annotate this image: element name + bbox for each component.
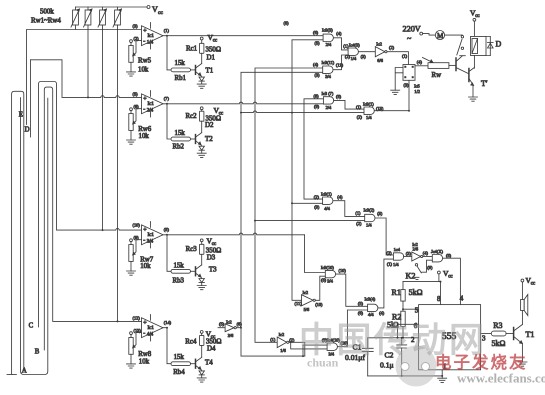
- wire op3 output corner down to G6: [305, 235, 326, 273]
- inverter IV6 IC2 1/6: [270, 332, 305, 356]
- svg-text:Ic5: Ic5: [414, 84, 420, 89]
- svg-text:T3: T3: [209, 267, 217, 274]
- svg-text:500k: 500k: [40, 9, 54, 16]
- watermark stamp circle: [396, 346, 437, 387]
- svg-text:Ic1: Ic1: [148, 34, 155, 39]
- ground Rw8: [127, 364, 136, 368]
- svg-text:(2): (2): [345, 54, 351, 59]
- svg-text:chuan: chuan: [307, 356, 339, 370]
- svg-text:www.elecfans.com: www.elecfans.com: [457, 371, 545, 386]
- svg-text:15k: 15k: [175, 60, 186, 67]
- svg-text:Rw1~Rw4: Rw1~Rw4: [31, 18, 61, 25]
- svg-text:1/4: 1/4: [366, 115, 372, 120]
- svg-text:Ic3(4): Ic3(4): [365, 297, 376, 302]
- wire output stage2: [163, 104, 171, 139]
- node IV4 output junction: [240, 327, 242, 329]
- ground stage2: [197, 153, 206, 157]
- svg-text:-: -: [143, 331, 145, 337]
- Vcc terminal stage3: [200, 239, 203, 242]
- svg-text:2/4: 2/4: [326, 42, 332, 47]
- op-amp IC1 2/4 stage2: [127, 91, 224, 158]
- svg-text:(8): (8): [446, 253, 452, 258]
- svg-text:5kΩ: 5kΩ: [409, 288, 423, 297]
- svg-text:Ic1: Ic1: [148, 233, 155, 238]
- svg-text:K2: K2: [406, 272, 416, 281]
- resistor Rb3 15k: [171, 269, 191, 273]
- svg-text:15k: 15k: [174, 354, 185, 361]
- svg-text:Rb1: Rb1: [175, 75, 187, 82]
- svg-text:1/2: 1/2: [414, 89, 420, 94]
- Vcc terminal relay: [470, 9, 480, 37]
- wire G12 input1 from bottom link: [303, 345, 327, 356]
- svg-text:A: A: [22, 368, 27, 375]
- wire G8 out down to G11: [375, 218, 393, 255]
- svg-text:(10): (10): [133, 223, 141, 228]
- svg-text:Rb3: Rb3: [173, 278, 185, 285]
- svg-text:(2): (2): [356, 221, 362, 226]
- resistor R3 5k: [481, 321, 514, 348]
- Vcc terminal stage2: [200, 107, 203, 110]
- svg-text:2/6: 2/6: [413, 247, 419, 252]
- potentiometer Rw5 10k: [130, 40, 133, 43]
- AND gate G11 IC4 1/4: [387, 247, 412, 267]
- inverter IV7 IC2 2/6: [412, 242, 433, 261]
- svg-text:(10): (10): [339, 268, 347, 273]
- svg-text:(2): (2): [389, 45, 395, 50]
- svg-text:(6): (6): [313, 30, 319, 35]
- svg-text:T4: T4: [205, 360, 213, 367]
- node bus255 tap G8: [254, 220, 256, 222]
- svg-text:10k: 10k: [139, 358, 150, 365]
- svg-text:T′: T′: [481, 79, 488, 88]
- relay contact switch: [457, 36, 466, 56]
- sensor tube B inner: [44, 87, 141, 350]
- svg-text:T1: T1: [206, 68, 214, 75]
- wire bus v241 from G2 lower input down to IV4 output: [241, 72, 323, 356]
- svg-text:(1): (1): [356, 105, 362, 110]
- diode D3: [200, 277, 203, 278]
- svg-text:(9): (9): [427, 265, 433, 270]
- AND gate G8 IC3 1/4: [355, 208, 393, 255]
- sensor tube C outer: [39, 82, 142, 328]
- svg-text:(3): (3): [315, 73, 321, 78]
- svg-text:(11): (11): [295, 301, 303, 306]
- wire op2 output row to G4: [167, 102, 323, 104]
- svg-text:cc: cc: [158, 10, 163, 16]
- wire G5 lower input from bus241: [241, 111, 364, 113]
- svg-text:1/4: 1/4: [393, 262, 399, 267]
- wire IV5 out up to G6 input: [315, 276, 325, 300]
- svg-text:3/4: 3/4: [147, 240, 154, 245]
- wire G13 out to pin4 line: [443, 258, 461, 304]
- svg-text:(8): (8): [164, 227, 170, 232]
- wire IV1 out to IC5: [387, 52, 408, 65]
- svg-text:350Ω: 350Ω: [206, 47, 221, 54]
- ground IC5: [391, 90, 400, 94]
- svg-text:Rw8: Rw8: [138, 351, 152, 358]
- svg-text:(8): (8): [284, 21, 290, 26]
- inverter IV1 IC2 6/6: [375, 41, 408, 64]
- inverter IV5 IC2 5/6: [295, 276, 326, 312]
- Vcc terminal 555: [403, 269, 453, 305]
- node bus292 tap G7: [291, 202, 293, 204]
- svg-text:D1: D1: [207, 55, 216, 62]
- AND gate G6 IC3 3/4: [321, 265, 368, 306]
- svg-text:(3): (3): [361, 54, 367, 59]
- svg-text:1/4: 1/4: [147, 41, 154, 46]
- transistor T1: [195, 66, 197, 75]
- wire D to opamp2: [31, 60, 142, 98]
- svg-text:Ic3(1): Ic3(1): [321, 192, 332, 197]
- svg-text:(5): (5): [219, 322, 225, 327]
- svg-text:Rc2: Rc2: [186, 113, 198, 120]
- ground stage3: [197, 286, 206, 290]
- svg-text:(5): (5): [358, 301, 364, 306]
- bus drop to opamp3 input: [102, 30, 104, 231]
- svg-text:1/4: 1/4: [351, 56, 357, 61]
- svg-text:Jc4(X): Jc4(X): [431, 249, 443, 254]
- wire pin5: [403, 308, 419, 310]
- svg-text:(7): (7): [164, 96, 170, 101]
- svg-text:cc: cc: [475, 14, 480, 19]
- transistor T' darlington pair: [456, 56, 488, 101]
- svg-text:(1): (1): [343, 43, 349, 48]
- AND gate G7 IC3 4/4: [314, 192, 365, 217]
- diode D2: [200, 145, 203, 146]
- wire 555 pin1 to ground: [441, 370, 443, 378]
- svg-text:350Ω: 350Ω: [206, 339, 221, 346]
- svg-text:5/6: 5/6: [304, 307, 310, 312]
- diode D flyback: [486, 37, 490, 56]
- transistor T1 output: [514, 325, 535, 367]
- ground Rw7: [127, 271, 136, 275]
- svg-text:(3): (3): [404, 83, 410, 88]
- wire G5 out to IC5 reset: [374, 80, 409, 110]
- wire IV7 out to G13: [423, 256, 433, 258]
- svg-text:1/4: 1/4: [366, 223, 372, 228]
- svg-text:(3): (3): [133, 24, 139, 29]
- svg-text:电子发烧友: 电子发烧友: [435, 352, 528, 372]
- svg-text:(9): (9): [314, 104, 320, 109]
- svg-text:D2: D2: [205, 122, 214, 129]
- svg-text:(4): (4): [337, 195, 343, 200]
- svg-text:(4): (4): [313, 62, 319, 67]
- svg-text:(4): (4): [379, 311, 385, 316]
- svg-text:-: -: [143, 39, 145, 45]
- svg-text:R1: R1: [392, 288, 401, 297]
- svg-text:Rw5: Rw5: [138, 57, 152, 64]
- bus drop to opamp4 input: [117, 30, 119, 322]
- svg-text:2/4: 2/4: [147, 109, 154, 114]
- inverter IV4 IC2 3/6: [218, 320, 242, 339]
- svg-text:Ic3 (7): Ic3 (7): [322, 91, 334, 96]
- svg-text:D4: D4: [207, 346, 216, 353]
- potentiometer Rw6 10k: [130, 108, 133, 111]
- wire G11 out to IV7: [404, 256, 412, 258]
- svg-text:10k: 10k: [138, 66, 149, 73]
- svg-text:Rc4: Rc4: [185, 338, 197, 345]
- svg-text:D: D: [25, 127, 30, 134]
- svg-text:(10): (10): [315, 302, 323, 307]
- wire G8 lower input from bus255: [255, 220, 365, 222]
- ground T': [469, 97, 478, 101]
- svg-text:(3): (3): [314, 205, 320, 210]
- svg-text:(4): (4): [417, 60, 423, 65]
- ground 555: [438, 378, 447, 382]
- svg-text:(2): (2): [387, 250, 393, 255]
- wire relay to darlington collector: [473, 56, 475, 69]
- svg-text:Ic1: Ic1: [148, 326, 155, 331]
- resistor Rc1 350ohm: [200, 43, 204, 53]
- resistor Rc3 350ohm: [200, 244, 204, 254]
- svg-text:5: 5: [415, 307, 419, 315]
- wire op3 output row: [167, 233, 305, 235]
- svg-text:(5): (5): [133, 92, 139, 97]
- op-amp IC1 1/4 stage1: [127, 23, 221, 89]
- svg-text:Rb2: Rb2: [173, 143, 185, 150]
- svg-text:(1): (1): [387, 262, 393, 267]
- wire motor to relay switch: [445, 34, 463, 36]
- svg-text:E: E: [19, 112, 23, 119]
- wire IV6 out: [289, 342, 305, 356]
- svg-text:3/4: 3/4: [327, 279, 333, 284]
- svg-text:(6): (6): [237, 322, 243, 327]
- svg-text:5kΩ: 5kΩ: [492, 339, 506, 348]
- wire op4 out to IV4: [218, 327, 241, 329]
- svg-text:cc: cc: [213, 39, 218, 44]
- svg-text:4/4: 4/4: [368, 312, 374, 317]
- wire op1 output to gate G1: [167, 35, 323, 37]
- transistor T3: [195, 267, 197, 276]
- svg-text:(1): (1): [164, 28, 170, 33]
- svg-text:Rc3: Rc3: [186, 246, 198, 253]
- ground Rw6: [127, 140, 136, 144]
- mains label 220V: [403, 25, 436, 44]
- resistor Rb1 15k: [171, 68, 191, 72]
- svg-text:(1): (1): [355, 211, 361, 216]
- svg-text:(2): (2): [357, 115, 363, 120]
- wire output stage3: [163, 235, 171, 271]
- svg-text:T2: T2: [205, 136, 213, 143]
- svg-text:6/6: 6/6: [377, 58, 383, 63]
- svg-text:10k: 10k: [140, 263, 151, 270]
- Vcc terminal stage4: [200, 331, 203, 334]
- ground stage1: [197, 84, 206, 88]
- flip-flop IC5 1/2: [391, 54, 428, 95]
- relay coil K with diode D: [471, 37, 502, 69]
- bus drop to opamp2 input: [87, 30, 89, 98]
- potentiometer Rw3: [98, 7, 107, 30]
- svg-text:15k: 15k: [174, 262, 185, 269]
- wire G13 input2 from K2: [422, 260, 433, 272]
- svg-text:1/6: 1/6: [280, 348, 286, 353]
- svg-text:(11): (11): [336, 63, 344, 68]
- resistor Rc2 350ohm: [200, 111, 204, 121]
- svg-text:D: D: [496, 40, 502, 49]
- ground rail bottom: [368, 370, 447, 383]
- svg-text:(8): (8): [336, 94, 342, 99]
- wire output stage1: [163, 36, 171, 70]
- resistor R1 5k: [392, 282, 423, 312]
- transistor T2: [195, 135, 197, 144]
- electrode D wire short: [26, 30, 28, 125]
- svg-text:cc: cc: [448, 274, 453, 279]
- AND gate G3 IC4 1/4: [343, 42, 375, 61]
- wire bus v292 from G1 input down to inverter IV5: [292, 40, 323, 301]
- svg-text:Ic3(10): Ic3(10): [321, 265, 334, 270]
- ground T1: [518, 362, 527, 366]
- capacitor C1 0.01uF: [345, 338, 373, 376]
- potentiometer Rw1: [71, 7, 80, 30]
- svg-text:R3: R3: [493, 321, 502, 330]
- tank bottom tick: [7, 374, 16, 376]
- svg-text:(4): (4): [423, 251, 429, 256]
- svg-text:(1): (1): [270, 337, 276, 342]
- svg-text:(14): (14): [164, 320, 172, 325]
- Vcc terminal: [147, 6, 150, 9]
- svg-text:4/4: 4/4: [147, 333, 154, 338]
- svg-text:2/4: 2/4: [326, 105, 332, 110]
- ground Rw5: [127, 72, 136, 76]
- AND gate G12 IC4: [291, 310, 368, 356]
- svg-text:Ic3(3): Ic3(3): [322, 27, 333, 32]
- svg-text:Ic1: Ic1: [148, 102, 155, 107]
- transistor T4: [195, 359, 197, 368]
- svg-text:Rw: Rw: [432, 72, 442, 79]
- wire IC5 output to Rw wiper: [415, 65, 428, 67]
- svg-text:(4): (4): [336, 31, 342, 36]
- wire G7 lower input from bus292: [292, 202, 323, 204]
- IC 555 timer: [411, 295, 486, 371]
- wire IC5 left pins to ground: [395, 68, 403, 91]
- potentiometer Rw2: [84, 7, 93, 30]
- svg-text:(3): (3): [406, 251, 412, 256]
- wire bus v304 from G4 input down to G7: [304, 99, 323, 199]
- svg-text:(2): (2): [314, 194, 320, 199]
- svg-text:Rc1: Rc1: [186, 46, 198, 53]
- svg-text:Ic4(3): Ic4(3): [349, 42, 360, 47]
- svg-text:Ic3(11): Ic3(11): [322, 60, 335, 65]
- svg-text:C: C: [29, 323, 34, 330]
- wire pin6: [398, 324, 419, 338]
- AND gate G13 IC4: [422, 249, 461, 305]
- switch K2: [406, 264, 422, 281]
- wire G4 out to G5: [334, 100, 364, 109]
- svg-text:4/4: 4/4: [324, 206, 330, 211]
- Vcc terminal stage1: [200, 37, 203, 40]
- wire Rw to T' base: [449, 64, 456, 66]
- potentiometer Rw7 10k: [130, 239, 133, 242]
- svg-text:Ic2: Ic2: [279, 332, 285, 337]
- wire G7 out to G8: [333, 201, 365, 217]
- svg-text:(8): (8): [321, 277, 327, 282]
- svg-text:3/4: 3/4: [325, 74, 331, 79]
- sensor tube outer wall left: [12, 91, 24, 374]
- op-amp IC1 4/4 stage4: [127, 315, 222, 383]
- svg-text:D3: D3: [207, 254, 216, 261]
- svg-text:3/6: 3/6: [228, 333, 234, 338]
- ground stage4: [197, 378, 206, 382]
- op-amp IC1 3/4 stage3: [127, 222, 222, 290]
- AND gate G4 IC3 2/4: [314, 91, 365, 110]
- svg-text:-: -: [143, 107, 145, 113]
- svg-text:-: -: [143, 238, 145, 244]
- AND gate G2 IC3 3/4: [313, 55, 348, 79]
- speaker: [521, 276, 536, 324]
- svg-text:15k: 15k: [175, 130, 186, 137]
- svg-text:10k: 10k: [139, 133, 150, 140]
- wire G3 out to inverter IV1: [358, 51, 375, 53]
- svg-text:(3): (3): [377, 211, 383, 216]
- node bottom link: [302, 355, 304, 357]
- svg-text:Ic2: Ic2: [226, 320, 232, 325]
- svg-text:0.1μ: 0.1μ: [380, 360, 394, 369]
- svg-text:1c4: 1c4: [394, 247, 401, 252]
- svg-text:Ic2: Ic2: [303, 290, 309, 295]
- svg-text:(13): (13): [376, 106, 384, 111]
- wire G6 out to G10: [336, 274, 368, 306]
- wire bus v255 from G2 input down to inverter IV6: [255, 68, 323, 342]
- svg-text:Ic2: Ic2: [376, 41, 382, 46]
- potentiometer Rw8 10k: [130, 332, 133, 335]
- wire pots common to opamp1: [27, 29, 142, 31]
- capacitor C2 0.1uF: [380, 337, 407, 376]
- tank vessel with bottom: [21, 98, 48, 375]
- wire pin2 / trigger net: [368, 337, 419, 339]
- svg-text:M: M: [437, 32, 444, 40]
- resistor R2 5k: [387, 311, 405, 339]
- diode D1: [200, 76, 203, 77]
- AND gate G1 IC3 2/4: [313, 27, 348, 50]
- electrode D second rod: [30, 60, 32, 137]
- svg-text:350Ω: 350Ω: [206, 247, 221, 254]
- svg-text:Ic3(2): Ic3(2): [364, 208, 375, 213]
- wire output stage4: [163, 328, 171, 364]
- svg-text:cc: cc: [531, 282, 536, 287]
- svg-text:(6): (6): [358, 311, 364, 316]
- svg-text:(8): (8): [314, 94, 320, 99]
- svg-text:220V: 220V: [403, 25, 421, 34]
- wire G10 out up to G11 input: [378, 259, 394, 308]
- resistor Rb2 15k: [171, 137, 191, 141]
- svg-text:B: B: [35, 349, 40, 356]
- resistor Rb4 15k: [171, 362, 191, 366]
- wire G12 out up to G10 input: [337, 310, 367, 347]
- wire G2 out to G3: [333, 55, 348, 70]
- resistor Rc4 350ohm: [200, 335, 204, 345]
- svg-text:Ic3(1): Ic3(1): [363, 102, 374, 107]
- svg-text:4: 4: [460, 295, 464, 303]
- wire G1 out to G3: [333, 38, 348, 50]
- Vcc supply rail: [76, 6, 148, 8]
- AND gate G10 IC3 4/4: [358, 259, 394, 317]
- AND gate G5 IC3 1/4: [356, 80, 410, 120]
- potentiometer Rw: [423, 58, 456, 80]
- svg-text:T1: T1: [526, 330, 535, 339]
- svg-text:(1): (1): [402, 54, 408, 59]
- diode D4: [200, 370, 203, 371]
- svg-text:~: ~: [407, 34, 412, 43]
- svg-text:(5): (5): [315, 41, 321, 46]
- svg-text:(12): (12): [133, 316, 141, 321]
- potentiometer Rw4: [113, 7, 122, 30]
- wire Vcc rail to R1 and pin8: [403, 282, 441, 305]
- wire to motor: [423, 34, 436, 36]
- svg-text:Rb4: Rb4: [173, 369, 185, 376]
- svg-text:Rw6: Rw6: [138, 126, 152, 133]
- wire G12 input2 from IV6: [291, 342, 327, 349]
- motor M: [435, 30, 462, 40]
